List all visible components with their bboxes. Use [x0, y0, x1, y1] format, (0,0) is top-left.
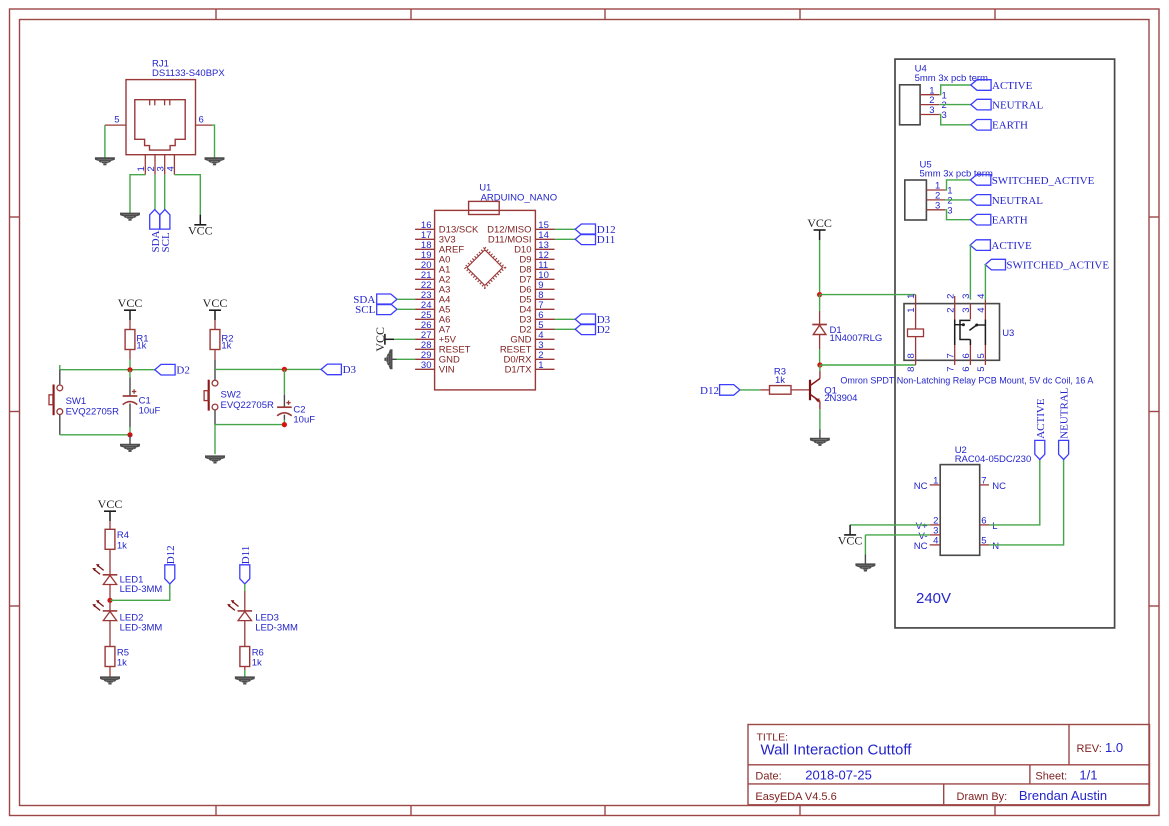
ground at RJ1 pin5 [95, 158, 115, 164]
resistor R1 1k [125, 320, 148, 359]
net flag NEUTRAL at U4 [971, 99, 1044, 111]
U2 pin 2 V+ [916, 516, 941, 532]
relay U3 pin 4 [976, 294, 987, 313]
svg-text:SCL: SCL [355, 304, 375, 316]
U1 pin 29 GND [415, 350, 460, 366]
svg-text:Omron SPDT Non-Latching Relay: Omron SPDT Non-Latching Relay PCB Mount,… [840, 376, 1093, 386]
svg-text:VIN: VIN [439, 365, 455, 376]
svg-text:NEUTRAL: NEUTRAL [1059, 387, 1071, 439]
svg-text:3: 3 [942, 110, 947, 121]
U1 pin 4 GND [510, 330, 554, 346]
svg-text:2018-07-25: 2018-07-25 [805, 768, 872, 783]
resistor R3 1k [760, 367, 810, 395]
wire SW2 bottom row [215, 424, 284, 426]
wire RJ1 pin4 to VCC [174, 175, 200, 215]
svg-text:8: 8 [906, 353, 917, 358]
RJ1 pin 2 [146, 155, 157, 175]
resistor R5 1k [105, 647, 129, 678]
svg-text:3: 3 [929, 105, 934, 116]
relay U3 pin 2 [945, 294, 956, 313]
svg-text:RAC04-05DC/230: RAC04-05DC/230 [955, 454, 1032, 465]
svg-text:1.0: 1.0 [1105, 740, 1123, 755]
U1 pin 13 D10 [514, 240, 554, 256]
U1 pin 17 3V3 [415, 230, 456, 246]
svg-text:Sheet:: Sheet: [1035, 771, 1067, 783]
relay U3 pin 7 [945, 353, 956, 372]
net flag EARTH at U5 [971, 214, 1028, 226]
svg-text:SCL: SCL [160, 232, 172, 252]
U1 pin 6 D3 [519, 310, 554, 326]
wire D1 to collector junction [819, 349, 821, 365]
wire U2 V- to ground [865, 534, 929, 536]
wire ground to pin 29 [397, 358, 416, 360]
wire node row SW1 horizontal [60, 369, 155, 371]
svg-text:EARTH: EARTH [992, 215, 1028, 227]
wire SW1 bottom row [60, 434, 130, 436]
U1 pin 18 AREF [415, 240, 464, 256]
wire junction to relay pin 1 [820, 294, 916, 296]
wire RJ1 pin3 to SCL flag [164, 175, 166, 210]
wire C1 to ground [129, 435, 131, 445]
junction R1/D2/SW1/C1 [127, 367, 132, 372]
svg-text:U3: U3 [1002, 328, 1014, 339]
U1 pin 11 D8 [519, 260, 554, 276]
U1 pin 15 D12/MISO [487, 220, 554, 236]
wire RJ1 pin1 to ground [130, 175, 145, 214]
ground at RJ1 pin1 [120, 214, 140, 220]
border tick marks right [1149, 217, 1159, 606]
wire R2 to SW2 [214, 360, 216, 380]
svg-text:SW2: SW2 [221, 389, 242, 400]
svg-text:D12: D12 [165, 545, 177, 564]
ground below C1 [120, 445, 140, 451]
svg-text:7: 7 [981, 476, 986, 487]
svg-text:Brendan Austin: Brendan Austin [1019, 788, 1107, 803]
svg-text:SWITCHED_ACTIVE: SWITCHED_ACTIVE [1006, 260, 1109, 272]
terminal U4 5mm 3x pcb term [900, 64, 988, 125]
wire stub at SW1 node [59, 365, 61, 370]
svg-text:1k: 1k [252, 658, 262, 669]
ground at U2 V- [855, 564, 875, 570]
svg-text:5: 5 [976, 353, 987, 358]
transistor Q1 2N3904 [810, 371, 857, 409]
ground below R6 [235, 677, 255, 683]
svg-text:D12: D12 [700, 385, 719, 397]
wire node row SW2 horizontal [215, 368, 321, 370]
wire pin 15 to D12 flag [555, 228, 576, 230]
net flag NEUTRAL at U5 [971, 195, 1044, 207]
U1 pin 1 D1/TX [505, 360, 555, 376]
U1 pin 28 RESET [415, 340, 471, 356]
svg-text:VCC: VCC [807, 216, 832, 230]
U1 pin 21 A2 [415, 270, 450, 286]
VCC power flag at RJ1 pin4 [188, 215, 213, 238]
U1 pin 22 A3 [415, 280, 450, 296]
junction C2 bottom [282, 422, 287, 427]
svg-text:VCC: VCC [98, 497, 123, 511]
svg-text:ACTIVE: ACTIVE [1035, 398, 1047, 439]
svg-text:8: 8 [906, 367, 917, 372]
wire R6 to ground [244, 670, 246, 677]
relay U3 pin 8 [906, 353, 917, 372]
wire Q1 emitter to ground [819, 409, 821, 429]
U1 pin 3 RESET [500, 340, 555, 356]
power module U2 RAC04-05DC/230 [940, 445, 1031, 555]
svg-text:1k: 1k [117, 658, 127, 669]
wire U4 pin2 to NEUTRAL flag [939, 104, 971, 106]
U1 pin 5 D2 [519, 320, 554, 336]
svg-text:1k: 1k [775, 375, 785, 386]
VCC power flag at U2 [838, 525, 863, 548]
U4 pin 2 [920, 95, 947, 111]
svg-text:1: 1 [933, 476, 938, 487]
title block [748, 725, 1150, 805]
svg-text:NC: NC [914, 541, 928, 552]
RJ1 pin 4 [165, 155, 176, 175]
net flag D3 at SW2 [321, 364, 356, 376]
wire SDA flag to pin 23 [397, 298, 415, 300]
wire pin 14 to D11 flag [555, 238, 576, 240]
U1 pin 7 D4 [519, 300, 554, 316]
svg-text:LED-3MM: LED-3MM [120, 622, 163, 633]
svg-text:5: 5 [114, 114, 119, 125]
svg-text:ACTIVE: ACTIVE [992, 80, 1033, 92]
U1 pin 8 D5 [519, 290, 554, 306]
svg-text:3: 3 [935, 200, 940, 211]
wire junction to D1 [819, 295, 821, 311]
mains enclosure box [895, 59, 1115, 628]
LED LED2 LED-3MM [92, 600, 162, 646]
svg-text:D11: D11 [240, 546, 252, 565]
svg-text:L: L [992, 521, 997, 532]
svg-text:ACTIVE: ACTIVE [991, 240, 1032, 252]
U1 pin 30 VIN [415, 360, 455, 376]
svg-text:D3: D3 [343, 364, 357, 376]
svg-text:10uF: 10uF [139, 406, 161, 417]
svg-text:4: 4 [933, 536, 938, 547]
svg-text:2: 2 [945, 307, 956, 312]
relay U3 pin 1 [906, 294, 917, 313]
wire pin 6 to D3 flag [555, 318, 576, 320]
U2 pin 7 NC [980, 476, 1006, 492]
svg-text:4: 4 [976, 294, 987, 299]
capacitor C1 10uF [123, 370, 161, 435]
svg-text:1: 1 [906, 294, 917, 299]
wire U4 pin1 to ACTIVE flag [939, 85, 971, 95]
svg-text:D11: D11 [597, 234, 616, 246]
U2 pin 1 NC [914, 476, 940, 492]
resistor R2 1k [210, 320, 233, 360]
wire LED1 junction to D12 flag [110, 584, 170, 600]
wire D11 flag to LED3 [244, 584, 246, 591]
RJ1 pin 5 [105, 114, 126, 125]
svg-text:1: 1 [538, 360, 543, 371]
wire RJ1 pin5 to ground [104, 125, 106, 158]
wire U4 pin3 to EARTH flag [939, 115, 971, 125]
wire RJ1 pin6 to ground [212, 125, 215, 158]
svg-text:3: 3 [961, 307, 972, 312]
U1 pin 10 D7 [519, 270, 554, 286]
net flag D2 at U1 [575, 324, 610, 336]
resistor R6 1k [240, 647, 264, 671]
wire U2 L to ACTIVE flag [989, 460, 1040, 525]
junction VCC/D1/relay pin1 [817, 292, 822, 297]
ground at RJ1 pin6 [205, 158, 225, 164]
border tick marks bottom [216, 806, 995, 816]
wire SWITCHED_ACTIVE flag to relay pin 4 [984, 265, 986, 300]
U1 pin 16 D13/SCK [415, 220, 479, 236]
junction C1 bottom [127, 432, 132, 437]
svg-text:1N4007RLG: 1N4007RLG [830, 333, 883, 344]
svg-text:1: 1 [906, 307, 917, 312]
U1 pin 27 +5V [415, 330, 457, 346]
svg-text:6: 6 [199, 114, 204, 125]
svg-text:1k: 1k [221, 341, 231, 352]
wire RJ1 pin2 to SDA flag [154, 175, 156, 210]
wire SCL flag to pin 24 [397, 308, 415, 310]
net flag SCL [160, 210, 172, 253]
relay U3 pin 6 [961, 353, 972, 372]
net flag D12 at LEDs [165, 545, 177, 584]
RJ1 pin 3 [156, 155, 167, 175]
ground below SW2 [205, 456, 225, 462]
svg-text:SWITCHED_ACTIVE: SWITCHED_ACTIVE [992, 175, 1095, 187]
svg-text:7: 7 [945, 367, 956, 372]
wire U2 N to NEUTRAL flag [989, 460, 1064, 545]
wire SW1 left drop [59, 370, 61, 385]
svg-text:VCC: VCC [188, 223, 213, 237]
wire VCC to pin 27 [394, 338, 415, 340]
svg-text:NEUTRAL: NEUTRAL [992, 100, 1044, 112]
resistor R4 1k [105, 521, 129, 575]
border tick marks top [216, 9, 995, 20]
svg-text:D1/TX: D1/TX [505, 365, 533, 376]
svg-text:3: 3 [947, 205, 952, 216]
wire pin 5 to D2 flag [555, 328, 576, 330]
VCC power flag above relay coil [807, 216, 832, 240]
U1 pin 9 D6 [519, 280, 554, 296]
capacitor C2 10uF [277, 369, 315, 425]
svg-text:1k: 1k [117, 540, 127, 551]
svg-text:ARDUINO_NANO: ARDUINO_NANO [481, 192, 558, 203]
border tick marks left [10, 217, 20, 606]
svg-text:VCC: VCC [838, 534, 863, 548]
VCC power flag at U1 +5V [373, 327, 394, 352]
RJ1 pin 1 [136, 155, 147, 175]
ground below Q1 [810, 439, 830, 445]
svg-text:EARTH: EARTH [992, 120, 1028, 132]
net flag ACTIVE at U2 [1035, 398, 1047, 459]
net flag SDA at U1 A4 [353, 294, 397, 306]
MCU U1 ARDUINO_NANO body [435, 183, 558, 390]
svg-text:1k: 1k [136, 341, 146, 352]
wire D12 flag to R3 [740, 389, 760, 391]
net flag EARTH at U4 [971, 120, 1028, 132]
net flag D11 at U1 [575, 234, 615, 246]
wire SW2 to ground [214, 425, 216, 455]
wire U5 pin1 to SWITCHED_ACTIVE flag [945, 180, 970, 190]
wire R1 to node row [129, 360, 131, 370]
svg-text:D2: D2 [597, 324, 610, 336]
svg-text:NEUTRAL: NEUTRAL [992, 195, 1044, 207]
svg-text:1/1: 1/1 [1079, 768, 1097, 783]
net flag D12 at U1 [575, 224, 615, 236]
svg-text:VCC: VCC [203, 296, 228, 310]
VCC power flag above R4 [98, 497, 123, 521]
svg-text:NC: NC [992, 481, 1006, 492]
U2 pin 4 NC [914, 536, 940, 552]
U2 pin 3 V- [919, 526, 941, 542]
svg-text:5mm 3x pcb term: 5mm 3x pcb term [915, 73, 988, 84]
svg-text:EVQ22705R: EVQ22705R [66, 406, 119, 417]
net flag SWITCHED_ACTIVE to relay [985, 259, 1109, 271]
wire SW1 bottom lead [59, 415, 61, 435]
svg-text:10uF: 10uF [293, 415, 315, 426]
U1 pin 2 D0/RX [504, 350, 555, 366]
LED LED3 LED-3MM [227, 591, 298, 647]
svg-text:Wall Interaction Cuttoff: Wall Interaction Cuttoff [761, 741, 913, 758]
net flag SWITCHED_ACTIVE at U5 [971, 175, 1095, 187]
svg-text:Date:: Date: [755, 771, 781, 783]
relay U3 pin 3 [961, 294, 972, 313]
wire U5 pin3 to EARTH flag [945, 210, 970, 220]
connector RJ1 DS1133-S40BPX [126, 58, 225, 154]
svg-text:5: 5 [976, 367, 987, 372]
U1 pin 14 D11/MOSI [488, 230, 555, 246]
svg-text:LED-3MM: LED-3MM [255, 622, 298, 633]
wire SW2 bottom lead [214, 410, 216, 425]
svg-text:NC: NC [914, 481, 928, 492]
wire junction to relay pin 8 [820, 364, 916, 366]
svg-text:DS1133-S40BPX: DS1133-S40BPX [152, 68, 225, 79]
VCC power flag above R1 [118, 296, 143, 320]
svg-text:LED-3MM: LED-3MM [120, 584, 163, 595]
svg-text:2: 2 [945, 294, 956, 299]
svg-text:6: 6 [961, 367, 972, 372]
junction SW2 node / C2 top [282, 367, 287, 372]
svg-text:D2: D2 [176, 365, 189, 377]
svg-text:Drawn By:: Drawn By: [957, 791, 1008, 803]
svg-text:4: 4 [165, 166, 176, 171]
net flag D2 at SW1 [155, 364, 190, 376]
svg-text:5: 5 [981, 536, 986, 547]
svg-text:VCC: VCC [118, 296, 143, 310]
wire VCC to D1 junction [819, 240, 821, 295]
U5 pin 3 [926, 200, 952, 216]
ground below R5 [100, 677, 120, 683]
U5 pin 1 [926, 181, 952, 197]
net flag D3 at U1 [575, 314, 610, 326]
net flag NEUTRAL at U2 [1059, 387, 1071, 459]
wire VCC to U2 V+ [850, 524, 930, 526]
RJ1 pin 6 [196, 114, 213, 125]
terminal U5 5mm 3x pcb term [905, 159, 993, 220]
U4 pin 1 [920, 85, 947, 101]
svg-text:30: 30 [421, 360, 432, 371]
net flag D12 at R3 [700, 385, 740, 398]
U1 pin 20 A1 [415, 260, 450, 276]
U2 pin 6 L [980, 516, 998, 532]
LED LED1 LED-3MM [92, 564, 162, 600]
U1 pin 23 A4 [415, 290, 450, 306]
junction LED1/LED2/D12 [107, 598, 112, 603]
net flag SCL at U1 A5 [355, 304, 397, 316]
junction D1/Q1/relay pin8 [817, 362, 822, 367]
relay U3 body [904, 304, 1014, 361]
ground at U1 GND pin 29 [385, 349, 396, 369]
wire U5 pin2 to NEUTRAL flag [945, 199, 970, 201]
U1 pin 25 A6 [415, 310, 450, 326]
wire Q1 collector [819, 365, 821, 371]
net flag ACTIVE at U4 [971, 80, 1033, 92]
net flag ACTIVE to relay [970, 240, 1032, 252]
svg-text:4: 4 [976, 307, 987, 312]
svg-text:240V: 240V [916, 590, 951, 607]
pushbutton SW1 EVQ22705R [49, 385, 119, 418]
svg-text:2N3904: 2N3904 [824, 393, 857, 404]
U1 pin 26 A7 [415, 320, 450, 336]
svg-text:EVQ22705R: EVQ22705R [221, 400, 274, 411]
U2 pin 5 N [980, 536, 1000, 552]
U1 pin 19 A0 [415, 250, 450, 266]
svg-text:N: N [992, 541, 999, 552]
U5 pin 2 [926, 191, 952, 207]
svg-text:EasyEDA V4.5.6: EasyEDA V4.5.6 [755, 791, 836, 803]
pushbutton SW2 EVQ22705R [204, 380, 274, 412]
svg-text:7: 7 [945, 353, 956, 358]
U4 pin 3 [920, 105, 947, 121]
U1 pin 12 D9 [519, 250, 554, 266]
svg-text:6: 6 [981, 516, 986, 527]
wire ACTIVE flag to relay pin 3 [969, 245, 971, 300]
relay U3 pin 5 [976, 353, 987, 372]
net flag SDA [150, 210, 162, 253]
U1 pin 24 A5 [415, 300, 450, 316]
svg-text:6: 6 [961, 353, 972, 358]
VCC power flag above R2 [203, 296, 228, 320]
net flag D11 at LED3 [240, 546, 252, 584]
svg-text:3: 3 [961, 294, 972, 299]
svg-text:REV:: REV: [1077, 743, 1102, 755]
diode D1 1N4007RLG [812, 311, 882, 350]
